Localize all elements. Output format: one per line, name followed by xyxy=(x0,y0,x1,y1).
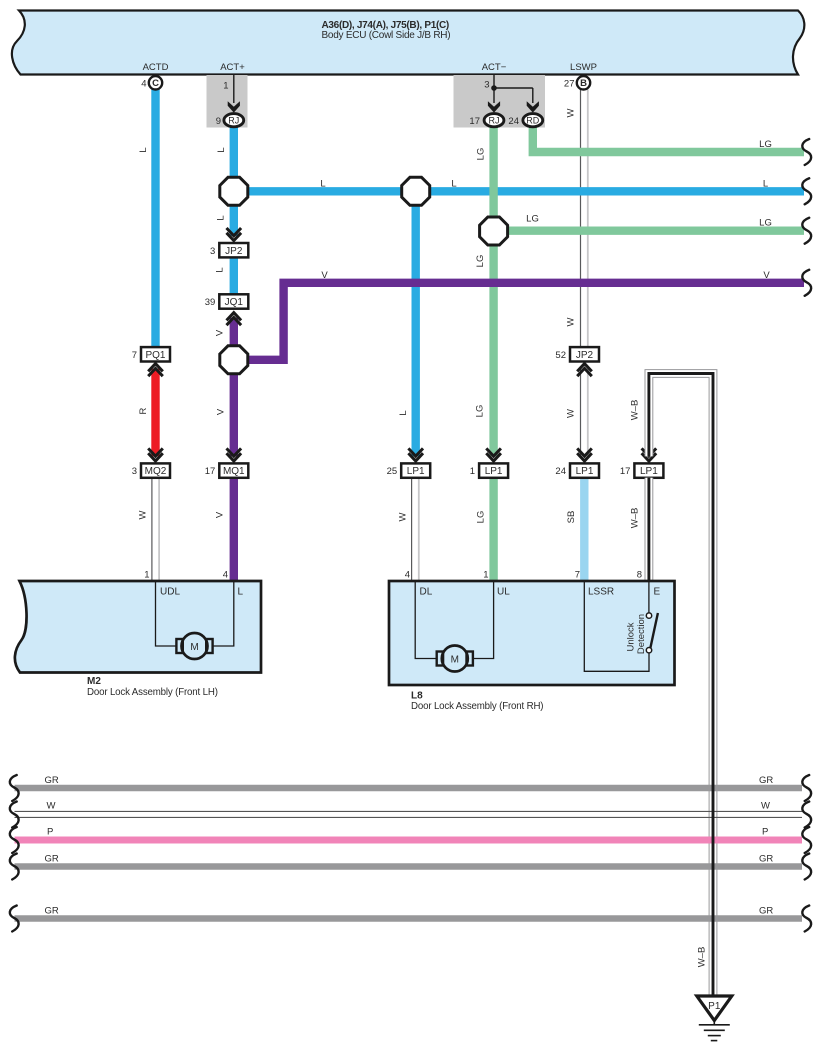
svg-text:L: L xyxy=(398,410,409,415)
svg-text:Door Lock Assembly (Front LH): Door Lock Assembly (Front LH) xyxy=(87,687,218,698)
svg-text:LG: LG xyxy=(475,405,486,418)
chevron into LP1-17 xyxy=(642,448,657,461)
svg-text:17: 17 xyxy=(205,466,216,477)
wire SB LP1-24 to LSSR xyxy=(580,478,588,582)
connector box LP1 pin 24 xyxy=(570,463,599,477)
svg-text:3: 3 xyxy=(132,466,137,477)
svg-text:V: V xyxy=(321,270,328,281)
connector oval RD pin 24 xyxy=(523,114,543,127)
connector box MQ1 pin 17 xyxy=(219,463,248,477)
svg-text:E: E xyxy=(654,587,661,598)
junction box PQ1 pin 7 xyxy=(141,347,170,361)
GR wire 3 xyxy=(15,915,803,921)
svg-text:UDL: UDL xyxy=(160,587,180,598)
wire W MQ2 to UDL xyxy=(152,478,412,582)
junction dot pin 3 xyxy=(491,85,497,91)
svg-text:9: 9 xyxy=(216,116,221,127)
svg-text:LSWP: LSWP xyxy=(570,62,597,73)
wire LG RJ17 down to LP1-1 xyxy=(489,125,497,456)
chevron into MQ2 xyxy=(148,448,163,461)
connector circle B pin 27 xyxy=(577,76,590,89)
svg-text:PQ1: PQ1 xyxy=(145,350,165,361)
svg-text:W: W xyxy=(398,512,409,521)
connector box LP1 pin 17 xyxy=(634,463,663,477)
wire LG LP1-1 to UL xyxy=(489,478,497,582)
svg-text:LG: LG xyxy=(759,139,772,150)
svg-text:B: B xyxy=(580,78,587,89)
chevron into JP2 xyxy=(227,228,242,241)
svg-text:RJ: RJ xyxy=(489,116,500,126)
svg-text:LSSR: LSSR xyxy=(588,587,614,598)
svg-text:GR: GR xyxy=(45,775,59,786)
svg-text:JP2: JP2 xyxy=(576,350,594,361)
svg-text:W: W xyxy=(47,801,56,812)
P wire xyxy=(15,837,803,844)
horizontal wire labels xyxy=(320,139,771,281)
svg-text:24: 24 xyxy=(508,116,519,127)
svg-text:ACT−: ACT− xyxy=(482,62,507,73)
ECU band (Body ECU Cowl Side J/B RH) xyxy=(12,11,804,75)
svg-text:GR: GR xyxy=(759,775,773,786)
break squiggle LG2 right xyxy=(802,218,811,244)
svg-text:L: L xyxy=(216,215,227,220)
wire LG from RD24 to right xyxy=(533,125,804,152)
GR wire 2 xyxy=(15,863,803,869)
break squiggles bottom right xyxy=(802,775,811,932)
octagon splice J3 xyxy=(480,217,508,245)
chevron into PQ1 from below xyxy=(148,364,163,377)
svg-text:L: L xyxy=(138,147,149,152)
ACT- arrow to RJ xyxy=(488,101,500,112)
svg-text:M: M xyxy=(190,642,198,653)
svg-text:4: 4 xyxy=(141,79,146,90)
connector box LP1 pin 1 xyxy=(479,463,508,477)
connector oval RJ pin 17 xyxy=(484,114,504,127)
svg-text:W: W xyxy=(761,801,770,812)
svg-text:Unlock: Unlock xyxy=(625,622,636,651)
svg-text:V: V xyxy=(763,270,770,281)
svg-text:1: 1 xyxy=(483,570,488,581)
svg-text:GR: GR xyxy=(759,906,773,917)
svg-text:L: L xyxy=(763,179,768,190)
wire V horizontal to right xyxy=(234,283,804,360)
gray box ACT- xyxy=(454,75,546,128)
junction box JP2 pin 52 xyxy=(570,347,599,361)
svg-text:DL: DL xyxy=(420,587,433,598)
chevron into MQ1 xyxy=(227,448,242,461)
wire LG octagon3 to right xyxy=(494,226,804,234)
chevron into JP2-52 from below xyxy=(577,364,592,377)
bottom wire labels xyxy=(45,775,774,917)
svg-text:LP1: LP1 xyxy=(576,466,594,477)
svg-text:L: L xyxy=(320,179,325,190)
svg-text:8: 8 xyxy=(637,570,642,581)
svg-text:JP2: JP2 xyxy=(225,246,243,257)
svg-text:LP1: LP1 xyxy=(640,466,658,477)
svg-text:SB: SB xyxy=(566,511,577,524)
svg-text:JQ1: JQ1 xyxy=(225,297,244,308)
wire L JP2 to JQ1 xyxy=(230,258,238,296)
svg-text:LG: LG xyxy=(476,511,487,524)
svg-text:LG: LG xyxy=(759,218,772,229)
wire V MQ1 to pin L xyxy=(230,478,238,582)
svg-text:W–B: W–B xyxy=(630,400,641,421)
svg-text:W: W xyxy=(138,510,149,519)
svg-text:R: R xyxy=(138,407,149,414)
svg-text:7: 7 xyxy=(575,570,580,581)
connector box MQ2 pin 3 xyxy=(141,463,170,477)
svg-text:W–B: W–B xyxy=(630,508,641,529)
svg-text:GR: GR xyxy=(45,854,59,865)
svg-text:LP1: LP1 xyxy=(485,466,503,477)
connector circle C pin 4 xyxy=(149,76,162,89)
break squiggle LG1 right xyxy=(802,139,811,165)
svg-text:V: V xyxy=(215,511,226,518)
octagon splice J1 xyxy=(220,177,248,205)
GR wire 1 xyxy=(15,785,803,791)
chevron into JQ1 from below xyxy=(227,313,242,326)
svg-text:W: W xyxy=(566,409,577,418)
chevron into LP1-25 xyxy=(408,448,423,461)
chevron into LP1-1 xyxy=(486,448,501,461)
svg-text:C: C xyxy=(152,78,159,89)
door lock assembly L8 box xyxy=(389,581,675,685)
M2 motor xyxy=(182,633,208,659)
svg-text:17: 17 xyxy=(469,116,480,127)
svg-text:W: W xyxy=(566,317,577,326)
svg-text:25: 25 xyxy=(387,466,398,477)
W-B wire outer xyxy=(649,374,713,997)
gray box ACT+ xyxy=(207,75,248,128)
svg-text:LP1: LP1 xyxy=(407,466,425,477)
svg-text:Door Lock Assembly (Front RH): Door Lock Assembly (Front RH) xyxy=(411,701,543,712)
ACT- pin 3 lead and branch xyxy=(493,75,495,103)
wire R PQ1 to MQ2 xyxy=(151,369,159,457)
wire L horizontal xyxy=(234,187,804,195)
svg-text:24: 24 xyxy=(555,466,566,477)
svg-text:ACTD: ACTD xyxy=(143,62,169,73)
svg-text:27: 27 xyxy=(564,79,575,90)
chevron into LP1-24 xyxy=(577,448,592,461)
svg-text:P1: P1 xyxy=(708,1001,721,1012)
svg-text:1: 1 xyxy=(470,466,475,477)
connector oval RJ pin 9 xyxy=(224,114,244,127)
svg-text:M: M xyxy=(451,654,459,665)
svg-text:L: L xyxy=(215,267,226,272)
wire L ACT+ blue down to JP2 xyxy=(230,125,238,236)
rotated wire labels xyxy=(138,108,708,967)
svg-text:P: P xyxy=(47,827,53,838)
svg-text:LG: LG xyxy=(475,255,486,268)
svg-text:RJ: RJ xyxy=(228,116,239,126)
door lock assembly M2 box xyxy=(15,581,261,673)
break squiggle L right xyxy=(802,178,811,204)
svg-text:UL: UL xyxy=(497,587,510,598)
svg-text:L: L xyxy=(238,587,244,598)
octagon splice J2 xyxy=(402,177,430,205)
octagon splice J4 xyxy=(220,346,248,374)
ACT+ pin 1 lead xyxy=(233,75,235,103)
L8 motor xyxy=(442,646,468,672)
svg-text:RD: RD xyxy=(526,116,539,126)
wire V JQ1 down through octagon4 to MQ1 xyxy=(230,318,238,457)
svg-text:GR: GR xyxy=(759,854,773,865)
svg-text:1: 1 xyxy=(223,81,228,92)
wire W vertical LSWP to JP2 xyxy=(580,90,582,457)
svg-text:3: 3 xyxy=(484,80,489,91)
svg-text:P: P xyxy=(762,827,768,838)
svg-text:1: 1 xyxy=(144,570,149,581)
W wire horizontal xyxy=(15,810,803,812)
svg-text:L: L xyxy=(451,179,456,190)
junction box JP2 pin 3 xyxy=(219,243,248,257)
wire L octagon2 down to LP1-25 xyxy=(412,191,420,456)
svg-text:4: 4 xyxy=(405,570,410,581)
svg-text:Body ECU (Cowl Side J/B RH): Body ECU (Cowl Side J/B RH) xyxy=(322,30,451,41)
svg-text:LG: LG xyxy=(526,214,539,225)
svg-text:52: 52 xyxy=(555,350,566,361)
svg-text:17: 17 xyxy=(620,466,631,477)
L8 unlock detection switch xyxy=(650,613,658,648)
W-B wire black core xyxy=(649,374,713,997)
svg-text:V: V xyxy=(215,329,226,336)
svg-text:39: 39 xyxy=(205,297,216,308)
svg-text:MQ1: MQ1 xyxy=(223,466,245,477)
connector box LP1 pin 25 xyxy=(401,463,430,477)
svg-text:L: L xyxy=(216,147,227,152)
svg-text:GR: GR xyxy=(45,906,59,917)
wire L ACTD blue xyxy=(151,88,159,347)
break squiggles bottom left xyxy=(10,775,19,932)
ground P1 xyxy=(697,996,732,1021)
svg-text:Detection: Detection xyxy=(636,614,647,654)
svg-text:W–B: W–B xyxy=(697,947,708,968)
svg-text:ACT+: ACT+ xyxy=(220,62,245,73)
svg-text:MQ2: MQ2 xyxy=(145,466,167,477)
svg-text:7: 7 xyxy=(132,350,137,361)
svg-text:M2: M2 xyxy=(87,676,101,687)
svg-text:V: V xyxy=(216,408,227,415)
svg-text:4: 4 xyxy=(223,570,228,581)
junction box JQ1 pin 39 xyxy=(219,294,248,308)
svg-text:LG: LG xyxy=(476,148,487,161)
svg-text:3: 3 xyxy=(210,246,215,257)
M2 inner wires xyxy=(156,581,234,646)
L8 inner wires xyxy=(415,581,649,671)
ACT- arrow to RD xyxy=(527,101,539,112)
break squiggle V right xyxy=(802,270,811,296)
svg-text:W: W xyxy=(566,108,577,117)
ACT+ arrow xyxy=(228,101,240,112)
